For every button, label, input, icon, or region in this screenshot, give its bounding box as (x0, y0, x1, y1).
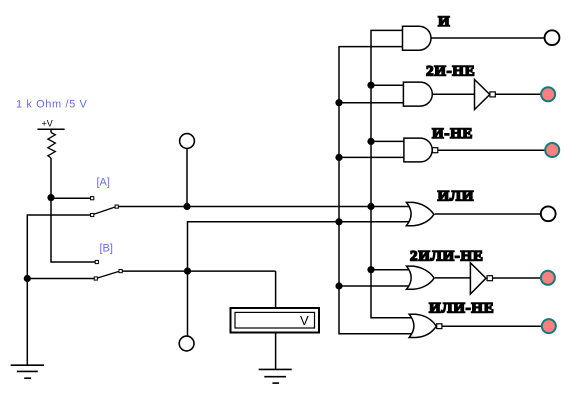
svg-text:2И-НЕ: 2И-НЕ (426, 64, 475, 80)
NOR gate U6 (409, 314, 436, 337)
indicator X2 (on) (541, 87, 555, 101)
ground rail junction (24, 275, 31, 282)
wire voltmeter drop (275, 271, 277, 308)
svg-text:ИЛИ-НЕ: ИЛИ-НЕ (429, 301, 494, 317)
node supply junction (47, 194, 54, 201)
wire node down to switch B upper throw (51, 198, 95, 262)
svg-text:[B]: [B] (100, 243, 113, 255)
bus A junction row5 (367, 266, 374, 273)
bubble U3 (432, 148, 437, 153)
ground (voltmeter) (259, 369, 292, 383)
wire U1 output (431, 37, 545, 39)
wire U2 output (495, 93, 540, 95)
wire U2 to inverter (432, 93, 474, 95)
bus A junction row2 (367, 82, 374, 89)
switch B arm (97, 271, 119, 278)
wire U4 output (435, 213, 541, 215)
wire signal B : switch B pole to voltmeter corner (122, 270, 275, 272)
wire probe 2 (187, 271, 189, 336)
wire U6 output (442, 325, 541, 327)
wire U5 output (493, 277, 541, 279)
OR gate U5 (407, 266, 435, 289)
bus B (left vertical) (339, 47, 413, 334)
wire bus A to gate2 (371, 84, 403, 86)
resistor R1 (48, 133, 55, 159)
switch B terminal squares (94, 260, 122, 280)
indicator X1 (off) (545, 30, 560, 45)
indicator X6 (on) (542, 319, 556, 333)
wire ground rail to switch A lower throw (27, 215, 90, 365)
wire bus A to gate5 (371, 269, 410, 271)
svg-text:ИЛИ: ИЛИ (438, 188, 475, 204)
svg-text:1 k Ohm /5 V: 1 k Ohm /5 V (16, 99, 87, 111)
bus B junction row4 (335, 218, 342, 225)
wire U3 output (438, 149, 545, 151)
wire voltmeter to ground (275, 333, 277, 370)
ground (rail) (11, 365, 44, 378)
svg-text:[A]: [A] (97, 177, 110, 189)
bus B junction row5 (335, 282, 342, 289)
wire probe 1 (186, 148, 188, 206)
wire node to switch A upper throw (51, 197, 91, 199)
svg-text:И-НЕ: И-НЕ (432, 126, 473, 142)
node B probe tee (184, 268, 191, 275)
AND gate U2 (403, 82, 432, 106)
bus A (right vertical) (371, 30, 413, 317)
svg-text:+V: +V (42, 119, 53, 129)
bus A junction row4 (367, 203, 374, 210)
AND gate U1 (403, 26, 432, 50)
inverter U5b (470, 263, 486, 294)
bubble U6 (437, 324, 442, 329)
wire signal A : switch A pole to OR gate top input (118, 206, 410, 208)
svg-text:2ИЛИ-НЕ: 2ИЛИ-НЕ (410, 249, 484, 265)
bus B junction row3 (335, 154, 342, 161)
wire U5 to inverter (435, 277, 470, 279)
svg-text:И: И (438, 14, 450, 30)
NAND gate U3 (404, 138, 432, 162)
bus B junction row2 (335, 99, 342, 106)
switch A terminal squares (91, 197, 119, 217)
wire bus B to gate2 (339, 102, 403, 104)
power +V symbol (37, 119, 64, 133)
wire bus B to gate3 (339, 156, 404, 158)
OR gate U4 (406, 202, 434, 225)
wire ground rail to switch B lower throw (27, 278, 94, 280)
indicator X5 (on) (541, 271, 555, 285)
voltmeter V1 (231, 308, 320, 333)
wire bus A to gate3 (371, 140, 404, 142)
indicator X3 (on) (545, 143, 559, 157)
wire resistor to node A (50, 158, 52, 198)
inverter U2b (475, 80, 490, 110)
logic probe P1 (180, 134, 195, 149)
switch A arm (94, 207, 115, 214)
svg-text:V: V (300, 313, 309, 328)
wire signal B riser to gate row (188, 222, 410, 271)
bus A junction row3 (367, 138, 374, 145)
indicator X4 (off) (541, 206, 556, 221)
wire bus B to gate5 (339, 285, 410, 287)
node A probe tee (183, 203, 190, 210)
logic probe P2 (179, 336, 194, 351)
